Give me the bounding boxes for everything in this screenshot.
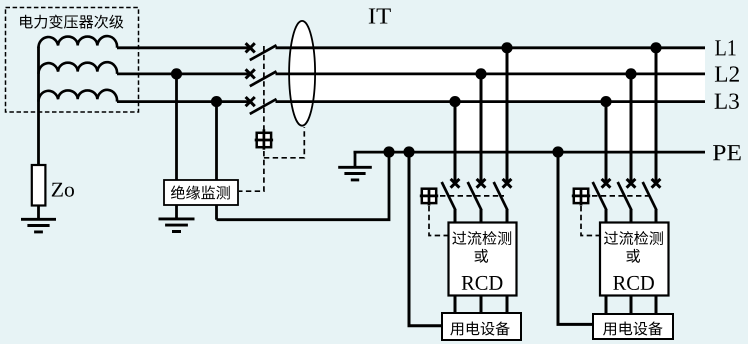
wire drop group1 L3 bbox=[454, 102, 457, 182]
operating mechanism of main switch bbox=[255, 129, 273, 149]
equipment box 用电设备 group 1 bbox=[442, 313, 521, 340]
wire monitor to earth bbox=[175, 205, 178, 219]
label 用电设备 group1 bbox=[450, 321, 510, 335]
label 绝缘监测 (insulation monitoring) bbox=[171, 185, 230, 199]
node PE tap group 2 bbox=[552, 146, 563, 157]
breaker blade on L3 bbox=[250, 99, 277, 114]
node L3 tap group 2 bbox=[600, 96, 611, 107]
wire PE earthing stub bbox=[354, 152, 357, 167]
breaker blade group2 L1 bbox=[643, 182, 657, 210]
node L2 tap for insulation monitor bbox=[171, 68, 182, 79]
label 过流检测 group2 bbox=[604, 231, 663, 245]
overcurrent/RCD box group 1 bbox=[449, 223, 517, 296]
breaker blade group1 L1 bbox=[494, 182, 508, 210]
dashed mechanism to RCD box group 2 bbox=[581, 206, 600, 236]
wire group1 L2 to detector box bbox=[480, 210, 483, 224]
label 或 group1 bbox=[475, 249, 489, 263]
label PE bbox=[713, 145, 741, 160]
earth electrode under Zo bbox=[21, 219, 56, 232]
earth electrode on PE bbox=[338, 167, 372, 180]
wire drop group2 L2 bbox=[630, 74, 633, 181]
label L1 bbox=[715, 40, 735, 55]
wire L3 incoming bbox=[117, 100, 252, 103]
operating mechanism group 2 breaker bbox=[572, 189, 590, 206]
label RCD group1 bbox=[462, 276, 503, 290]
dashed linkage group 2 breaker bbox=[592, 195, 653, 197]
dashed linkage below mechanism bbox=[239, 151, 264, 191]
label 或 group2 bbox=[626, 249, 640, 263]
node L3 tap group 1 bbox=[449, 96, 460, 107]
wire L1 incoming bbox=[117, 46, 252, 49]
breaker blade on L1 bbox=[250, 45, 277, 60]
wire group1 L3 to detector box bbox=[454, 210, 457, 224]
label L3 bbox=[715, 93, 739, 108]
white fill region load group 1 L3-PE bbox=[455, 101, 507, 152]
breaker blade group2 L3 bbox=[593, 182, 607, 210]
wire transformer common vertical bbox=[37, 47, 40, 166]
label L2 bbox=[715, 66, 739, 81]
wire L2 tap to monitor bbox=[175, 74, 178, 181]
wire PE line bbox=[354, 151, 706, 154]
insulation monitor box 绝缘监测 bbox=[164, 180, 238, 205]
breaker contact X group1 L3 bbox=[451, 179, 460, 188]
wire PE to equipment group 1 bbox=[409, 152, 442, 326]
label 电力变压器次级 (power transformer secondary) bbox=[20, 15, 123, 29]
label IT bbox=[369, 8, 391, 23]
breaker blade group1 L3 bbox=[442, 182, 456, 210]
wire L2 incoming bbox=[117, 73, 252, 76]
wire drop group2 L1 bbox=[655, 48, 658, 181]
white fill of cable ellipse bbox=[289, 21, 315, 126]
transformer winding W2 (L2 phase) bbox=[38, 62, 117, 74]
breaker contact X on L2 bbox=[246, 69, 255, 78]
dashed linkage group 1 breaker bbox=[440, 195, 504, 197]
wire L2 outgoing bbox=[276, 73, 706, 76]
wire group1 L1 to detector box bbox=[506, 210, 509, 224]
node L2 tap group 2 bbox=[625, 68, 636, 79]
node L1 tap group 2 bbox=[650, 42, 661, 53]
node L3 tap for insulation monitor bbox=[211, 96, 222, 107]
breaker contact X group2 L2 bbox=[627, 179, 636, 188]
impedance Zo body bbox=[32, 165, 46, 206]
wire drop group2 L3 bbox=[605, 102, 608, 182]
label RCD group2 bbox=[613, 276, 654, 290]
wire L1 outgoing bbox=[276, 46, 706, 49]
breaker contact X group1 L1 bbox=[503, 179, 512, 188]
breaker blade group2 L2 bbox=[618, 182, 632, 210]
dashed mechanism to RCD box group 1 bbox=[429, 206, 448, 236]
label Zo bbox=[52, 183, 74, 197]
wire group2 L2 to detector box bbox=[630, 210, 633, 224]
breaker contact X group1 L2 bbox=[477, 179, 486, 188]
white fill region between lines L1-L3 bbox=[315, 47, 705, 103]
node L2 tap group 1 bbox=[475, 68, 486, 79]
wire group2 L1 to detector box bbox=[655, 210, 658, 224]
node PE tap group 1 bbox=[403, 146, 414, 157]
equipment box 用电设备 group 2 bbox=[593, 314, 673, 339]
wire monitor to PE junction bbox=[217, 152, 390, 220]
transformer winding W1 (L1 phase) bbox=[38, 36, 117, 48]
wire L3 outgoing bbox=[276, 100, 706, 103]
wires RCD box to equipment group 1 bbox=[455, 295, 507, 313]
white fill region load group 2 L3-PE bbox=[606, 101, 656, 152]
overcurrent/RCD box group 2 bbox=[600, 223, 669, 296]
earth electrode under monitor bbox=[159, 219, 195, 232]
dashed linkage of main switch poles bbox=[263, 46, 265, 132]
breaker contact X group2 L1 bbox=[652, 179, 661, 188]
operating mechanism group 1 breaker bbox=[420, 189, 438, 206]
wire L3 tap through monitor bbox=[215, 102, 218, 220]
wire Zo to earth bbox=[37, 205, 40, 219]
label 过流检测 group1 bbox=[452, 231, 511, 245]
breaker blade group1 L2 bbox=[468, 182, 482, 210]
distribution cable ellipse (IT feeder) bbox=[289, 21, 315, 126]
node PE junction from monitor bbox=[383, 146, 394, 157]
wire drop group1 L2 bbox=[480, 74, 483, 181]
breaker contact X on L3 bbox=[246, 97, 255, 106]
wires RCD box to equipment group 2 bbox=[606, 295, 656, 314]
dashed link to cable ellipse bbox=[264, 127, 304, 158]
breaker contact X on L1 bbox=[246, 43, 255, 52]
wire drop group1 L1 bbox=[506, 48, 509, 181]
breaker blade on L2 bbox=[250, 71, 277, 86]
breaker contact X group2 L3 bbox=[602, 179, 611, 188]
node L1 tap group 1 bbox=[501, 42, 512, 53]
transformer winding W3 (L3 phase) bbox=[38, 90, 117, 102]
wire group2 L3 to detector box bbox=[605, 210, 608, 224]
transformer dashed enclosure bbox=[6, 8, 139, 113]
wire PE to equipment group 2 bbox=[558, 152, 593, 324]
label 用电设备 group2 bbox=[603, 321, 663, 335]
